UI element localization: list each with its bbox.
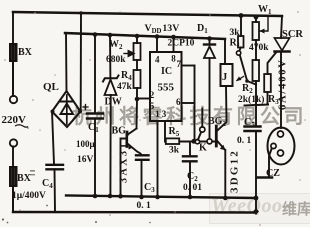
svg-text:47k: 47k [117, 82, 133, 92]
svg-text:BX: BX [17, 173, 32, 184]
svg-text:R2: R2 [242, 83, 253, 95]
svg-text:C3: C3 [144, 182, 155, 194]
svg-text:4: 4 [155, 55, 160, 65]
svg-text:J: J [222, 72, 227, 83]
svg-text:R1: R1 [230, 38, 241, 50]
svg-text:QL: QL [43, 81, 59, 93]
svg-text:VDD13V: VDD13V [145, 23, 180, 35]
svg-text:C1: C1 [88, 122, 99, 134]
svg-text:680k: 680k [106, 55, 126, 65]
svg-text:C4: C4 [42, 178, 53, 190]
svg-text:0. 01: 0. 01 [183, 183, 202, 193]
svg-text:7: 7 [177, 59, 182, 69]
svg-text:2k(1k): 2k(1k) [238, 94, 264, 105]
svg-text:100μ: 100μ [76, 139, 95, 149]
svg-text:1μ/400V: 1μ/400V [12, 191, 46, 201]
svg-text:R5: R5 [169, 126, 180, 138]
svg-text:D1: D1 [197, 23, 208, 35]
svg-text:R4: R4 [121, 70, 132, 82]
svg-text:2: 2 [150, 90, 155, 100]
svg-text:3AX31: 3AX31 [119, 141, 130, 183]
svg-text:6: 6 [176, 97, 181, 107]
svg-text:W1: W1 [258, 4, 272, 16]
svg-text:K: K [199, 143, 207, 154]
svg-text:3: 3 [162, 109, 167, 119]
svg-text:3DG12: 3DG12 [229, 149, 241, 193]
svg-text:SCR: SCR [282, 29, 303, 40]
svg-text:3k: 3k [169, 146, 180, 156]
svg-text:220V: 220V [2, 114, 27, 126]
svg-text:0. 1: 0. 1 [137, 201, 152, 211]
svg-text:BG2: BG2 [208, 116, 226, 128]
svg-text:C2: C2 [187, 171, 198, 183]
svg-text:2CP10: 2CP10 [168, 39, 195, 49]
svg-text:1: 1 [155, 109, 160, 119]
svg-text:0. 1: 0. 1 [237, 136, 252, 146]
svg-text:CZ: CZ [266, 168, 280, 179]
svg-text:C5: C5 [244, 117, 255, 129]
svg-text:BG1: BG1 [112, 126, 130, 138]
svg-text:555: 555 [158, 82, 175, 94]
svg-text:5: 5 [150, 101, 155, 111]
svg-text:470k: 470k [249, 43, 269, 53]
svg-text:6A/400V: 6A/400V [278, 58, 289, 110]
svg-text:3k: 3k [230, 28, 241, 38]
svg-text:DW: DW [105, 97, 122, 108]
svg-text:16V: 16V [77, 155, 94, 165]
svg-text:BX: BX [18, 47, 33, 58]
svg-text:IC: IC [161, 66, 172, 77]
svg-text:W2: W2 [109, 39, 123, 51]
